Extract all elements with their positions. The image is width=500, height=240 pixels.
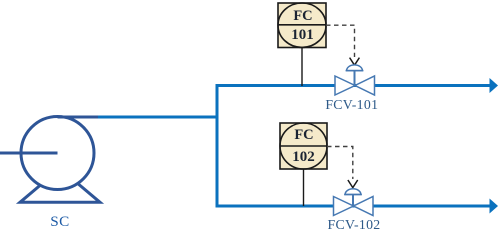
compressor suction line (0, 152, 58, 155)
dashed signal FC101 to FCV-101 (326, 25, 359, 65)
signal line from FC102 to pipe (303, 169, 305, 206)
open arrowhead down (350, 58, 360, 66)
signal line from FC101 to pipe (301, 47, 303, 86)
compressor SC body circle (21, 117, 94, 190)
bottom pipe arrowhead (490, 199, 499, 214)
instrument FC102 (280, 123, 327, 169)
svg-text:FCV-101: FCV-101 (325, 97, 378, 112)
svg-text:FC: FC (293, 8, 312, 24)
bowtie body (334, 197, 374, 216)
open arrowhead down (348, 180, 358, 188)
wire: top pipe to FCV-101 (216, 84, 491, 87)
wire: bottom pipe to FCV-102 (216, 205, 491, 208)
actuator dome (347, 65, 363, 71)
control valve FCV-101 (335, 65, 375, 95)
dashed signal FC102 to FCV-102 (327, 147, 358, 188)
actuator dome (345, 189, 361, 195)
control valve FCV-102 (334, 189, 374, 216)
svg-text:102: 102 (292, 149, 315, 165)
svg-text:FCV-102: FCV-102 (328, 217, 381, 232)
instrument FC101 (278, 3, 326, 48)
top pipe arrowhead (490, 78, 499, 93)
wire: branch vertical pipe (216, 84, 219, 208)
svg-text:FC: FC (294, 127, 313, 143)
wire: feed pipe from compressor to branch (98, 116, 219, 119)
stem (354, 71, 356, 86)
compressor SC base trapezoid (20, 180, 100, 203)
svg-text:101: 101 (291, 27, 314, 43)
svg-text:SC: SC (50, 213, 70, 230)
bowtie body (335, 76, 375, 95)
compressor discharge stub (58, 116, 101, 119)
stem (352, 195, 354, 207)
